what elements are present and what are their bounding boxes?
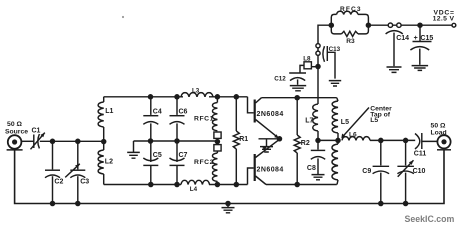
ferrite bead FB2 [214,145,221,151]
stray mark [122,16,124,18]
svg-text:2N6084: 2N6084 [257,111,284,118]
wire L6 to C11 [370,139,415,141]
resistor R1 [233,97,248,185]
inductor L2 [98,150,113,174]
choke RFC2 [194,151,217,185]
wire RFC3 to link [368,24,452,26]
inductor L3 [181,88,213,97]
svg-text:L4: L4 [190,186,198,193]
capacitor C7 [170,141,188,185]
capacitor C14 [386,31,410,73]
svg-text:C8: C8 [307,165,316,172]
wire C13 node to L8 [311,66,318,68]
node RFC1 top [215,94,221,100]
svg-text:R1: R1 [239,136,248,143]
capacitor C4 [143,97,162,141]
wire L7 node to supply [318,25,331,98]
ferrite bead FB1 [214,132,221,138]
node R2 bottom [294,182,300,188]
svg-text:SeekIC.com: SeekIC.com [405,214,455,224]
svg-text:C13: C13 [329,46,341,53]
svg-text:+: + [414,35,418,42]
wire bottom rail right of Q2 [266,184,337,186]
inductor L4 [181,180,210,193]
node C7 bottom [174,182,180,188]
wire L3 to Q1 base corner [209,96,248,98]
svg-text:Source: Source [5,129,28,136]
node C13 junction [315,64,321,70]
svg-text:C5: C5 [153,152,162,159]
ground emitters [260,139,273,152]
wire L1L2 column [103,97,105,185]
inductor L5 [332,98,349,185]
wire Q2 base riser [248,168,254,185]
svg-text:C9: C9 [362,168,371,175]
wire L8 to C12 [300,65,304,72]
capacitor C15 (electrolytic) [410,25,433,70]
transistor Q1 2N6084 [255,98,284,139]
node L7 bottom [315,138,321,144]
capacitor C10 (variable) [397,140,425,203]
VDC label [433,10,455,23]
wire L7 to L5 tap [318,139,338,141]
resistor R2 [294,98,310,185]
svg-text:C4: C4 [153,109,162,116]
node C15 top [417,22,423,28]
50 ohm Source label [5,121,28,136]
capacitor C11 (series) [414,133,427,157]
wire ground bus [15,150,444,204]
svg-text:50 Ω: 50 Ω [7,121,22,128]
svg-text:L2: L2 [105,159,113,166]
connector J1 source [7,135,23,150]
link circle B [397,23,401,27]
svg-text:L5: L5 [370,117,378,124]
ferrite bead L8 [303,55,311,69]
choke RFC1 [194,97,217,131]
transistor Q2 2N6084 [255,139,284,184]
resistor R3 [331,25,368,45]
capacitor C12 [274,73,306,91]
inductor L6 [342,131,370,140]
choke RFC3 [331,6,368,25]
link circle upper [316,44,320,48]
wire Q1 base riser [248,97,254,113]
svg-text:C15: C15 [420,35,433,42]
inductor L1 [98,102,113,127]
svg-text:C3: C3 [80,179,89,186]
node input to L1L2 [101,139,107,145]
node C4 top [148,94,154,100]
node C2 top [50,139,56,145]
svg-text:C1: C1 [32,128,41,135]
svg-text:2N6084: 2N6084 [257,167,284,174]
wire L4 to Q2 base corner [209,184,248,186]
node C6 top [174,94,180,100]
svg-text:C10: C10 [413,168,426,175]
node R1 top [234,94,240,100]
center tap callout [341,106,392,139]
node emitters [277,136,283,142]
node R1 bottom [234,182,240,188]
capacitor C5 [143,141,162,185]
node RFC2 bottom [215,182,221,188]
node C5 bottom [148,182,154,188]
svg-text:R2: R2 [301,140,310,147]
svg-text:C7: C7 [179,152,188,159]
capacitor C13 [323,46,341,86]
node bus C2 [50,201,56,207]
capacitor C8 [307,140,325,179]
link circle A [388,23,392,27]
wire source to C1 [21,140,33,142]
ground bus symbol [222,204,235,213]
link circle lower [316,51,320,55]
node C4C5 mid [148,138,154,144]
svg-text:C14: C14 [396,35,409,42]
wire C1 to input node [40,140,104,142]
svg-text:RFC1: RFC1 [194,116,214,123]
capacitor C2 [45,141,63,203]
node L5 center tap [335,138,341,144]
svg-text:RFC2: RFC2 [194,159,214,166]
svg-text:C2: C2 [54,179,63,186]
capacitor C6 [170,97,188,141]
node bus C3 [75,201,81,207]
wire middle rail [134,140,218,142]
inductor L7 [305,98,318,141]
svg-text:L1: L1 [105,108,113,115]
node RFC3 left [329,22,335,28]
node C10 top [403,138,409,144]
wire Q1 collector rail [262,97,337,99]
svg-text:C6: C6 [179,109,188,116]
capacitor C3 (variable) [65,141,89,203]
svg-text:R3: R3 [346,38,355,45]
svg-text:12.5 V: 12.5 V [433,16,455,23]
wire top rail input [104,96,183,98]
node R2 top [294,95,300,101]
connector J2 load [437,135,451,150]
node bus C9 [378,201,384,207]
node C9 top [378,138,384,144]
node C6C7 mid [174,138,180,144]
50 ohm Load label [430,122,446,136]
wire bottom rail left [104,184,181,186]
svg-text:C11: C11 [414,150,427,157]
ground input mid [127,141,140,158]
svg-text:RFC3: RFC3 [340,6,362,13]
svg-text:C12: C12 [274,76,286,83]
node RFC3 right [366,22,372,28]
wire C11 to load [422,140,438,142]
wire emitter rail [259,138,280,140]
svg-text:L5: L5 [341,119,349,126]
capacitor C1 (variable, series) [31,128,45,150]
node C3 top [75,139,81,145]
node RFC mid tap [215,139,221,145]
terminal VDC [452,23,456,27]
node bus mid [225,201,231,207]
capacitor C9 [362,140,389,203]
node bus C10 [403,201,409,207]
